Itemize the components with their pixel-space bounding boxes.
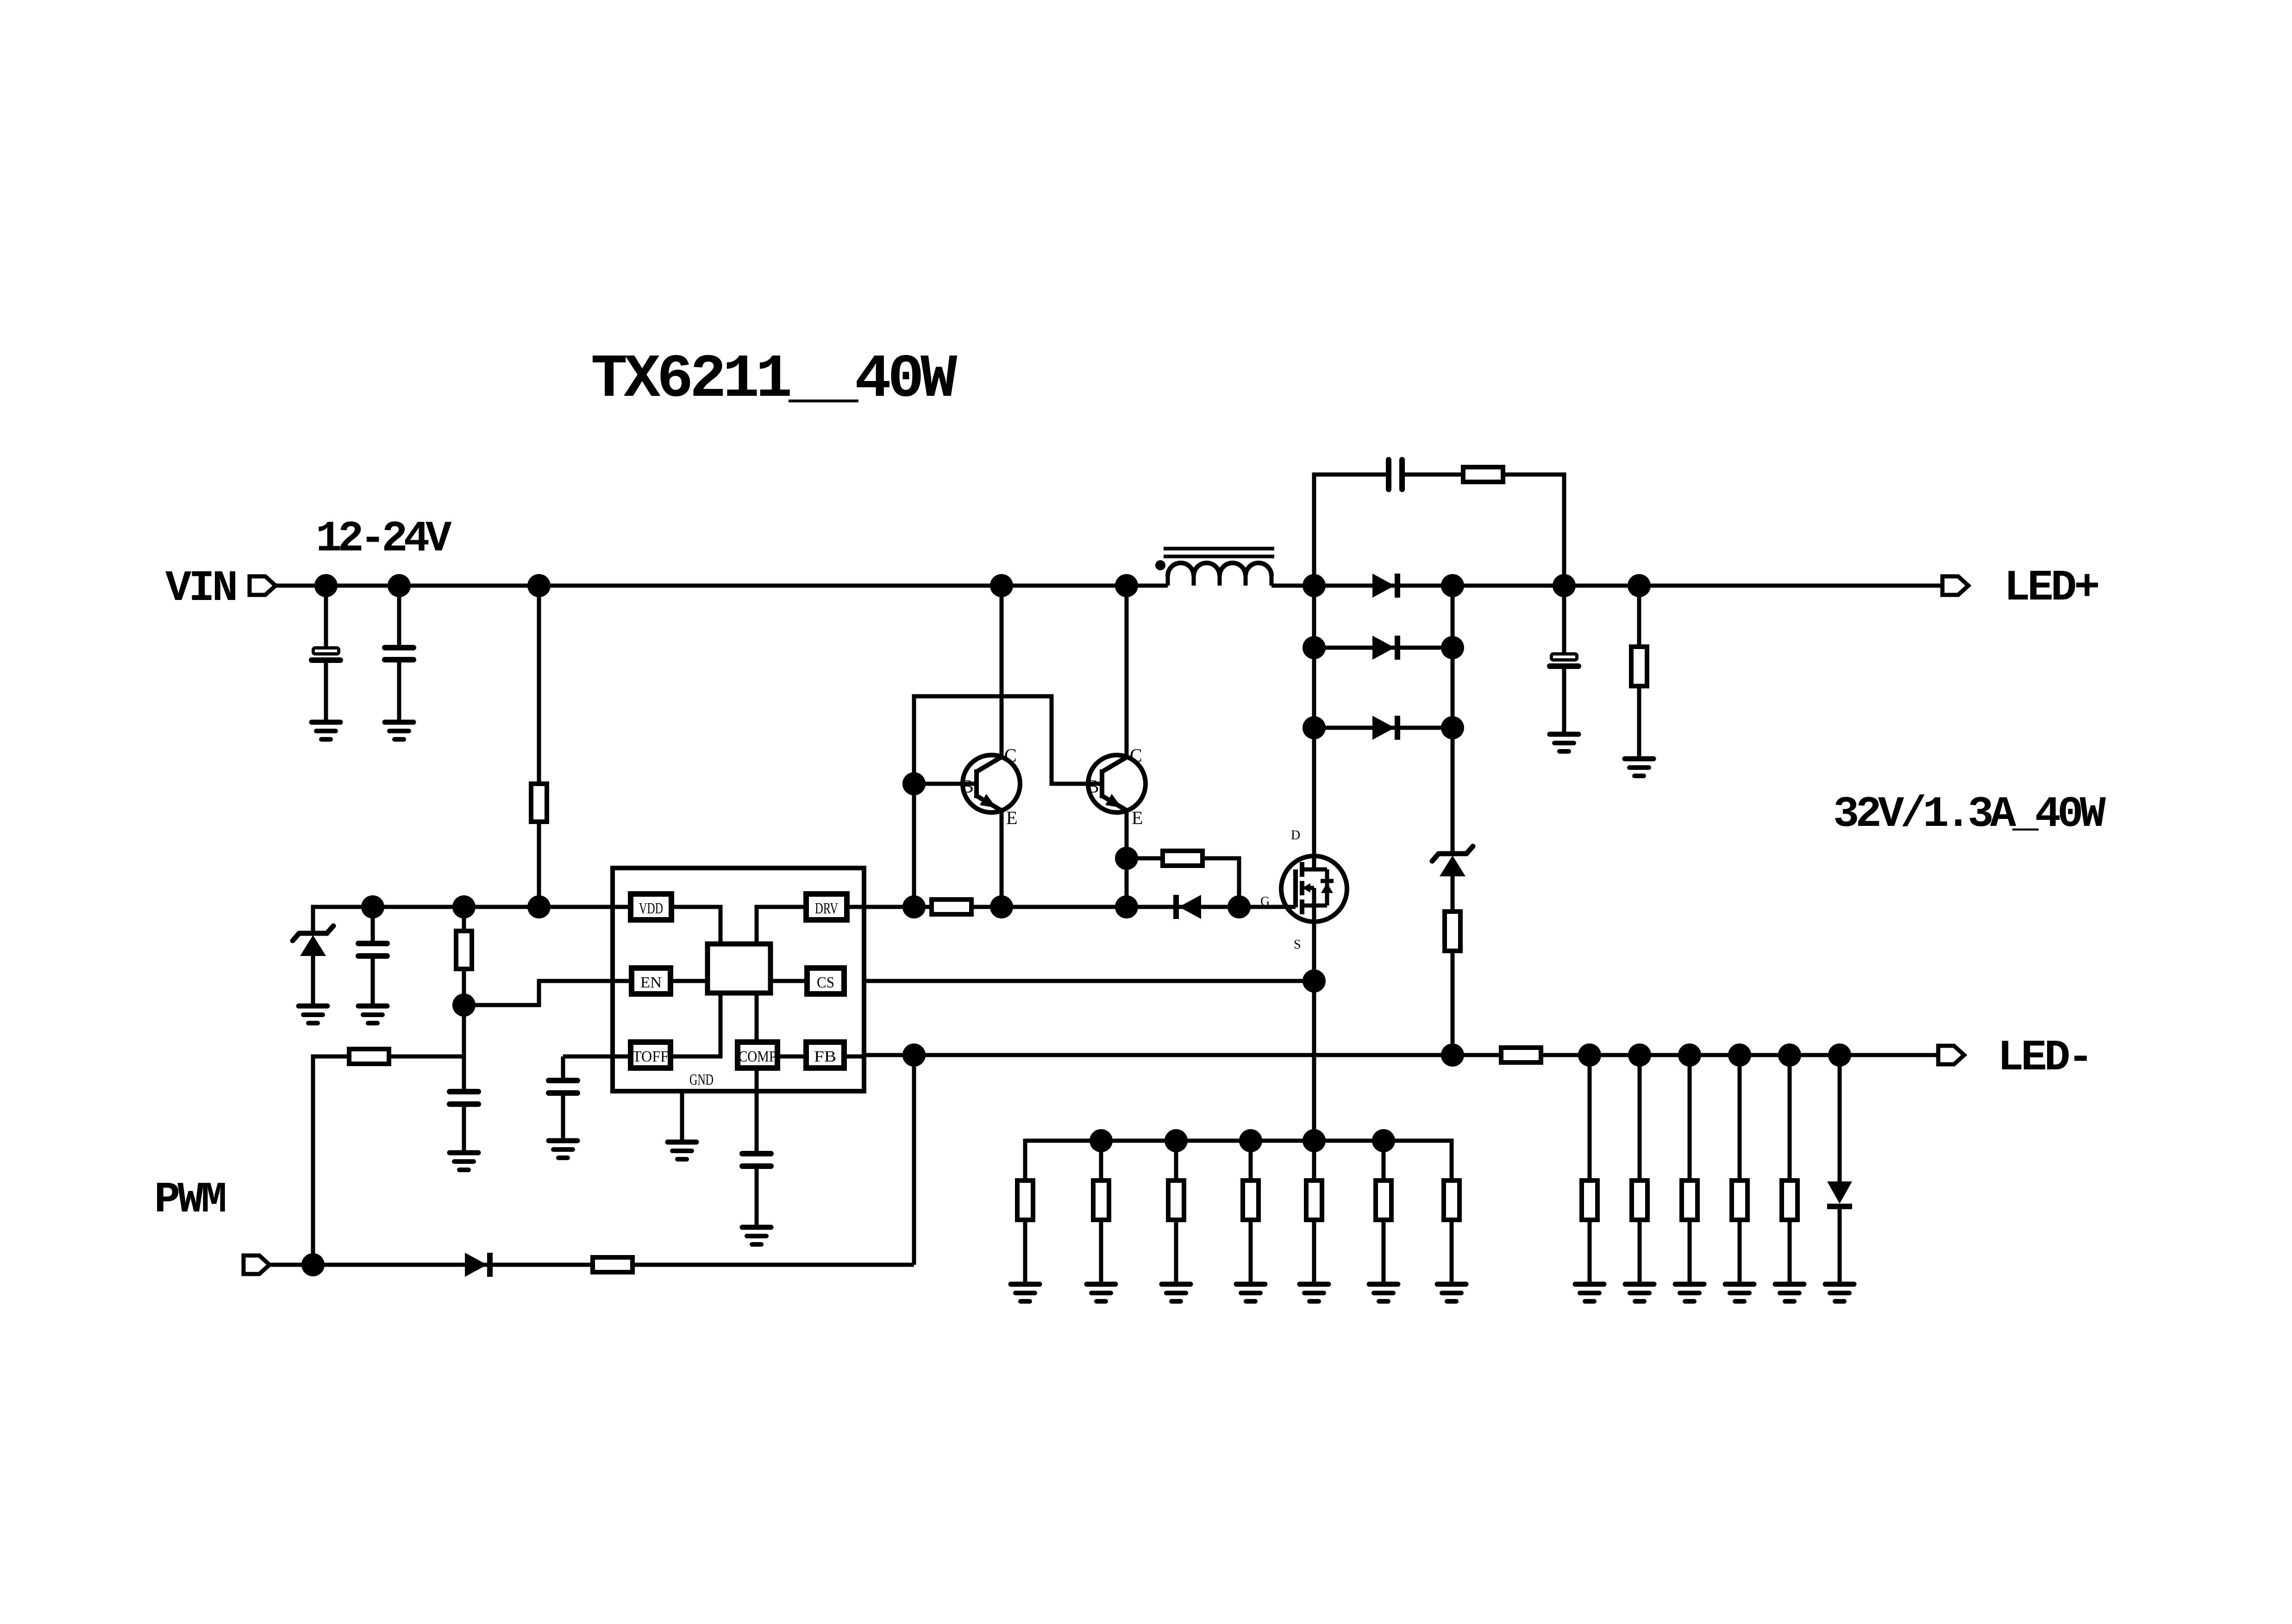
label Q2 B	[1087, 776, 1099, 797]
terminal VIN	[250, 576, 276, 595]
wire FB to PWM line	[912, 1055, 916, 1265]
resistor R20 (load bank)	[1682, 1181, 1697, 1220]
title TX6211__40W	[591, 345, 958, 414]
wire VDD rail	[313, 907, 631, 934]
wire bypass left	[1127, 856, 1163, 861]
wire C5 bottom lead	[371, 958, 375, 1006]
ground C7	[549, 1141, 577, 1158]
zener diode Z1 (VDD clamp)	[293, 926, 333, 956]
node D2 cathode	[1441, 636, 1464, 659]
ground bank R22	[1775, 1284, 1804, 1301]
wire Cout top lead	[1562, 586, 1566, 653]
label Q1 E	[1006, 807, 1017, 828]
wire Q2 emitter	[1125, 810, 1129, 907]
ground C2	[385, 722, 413, 739]
pin FB	[806, 1042, 844, 1068]
svg-text:C: C	[1130, 745, 1142, 766]
node VIN-C1	[314, 574, 338, 597]
node sense 5	[1372, 1129, 1395, 1152]
capacitor C8 (COMP)	[742, 1154, 771, 1166]
node sense 1	[1090, 1129, 1113, 1152]
svg-text:E: E	[1132, 807, 1143, 828]
wire Z1 to ground	[311, 956, 315, 1006]
label Q1 B	[961, 776, 974, 797]
svg-text:PWM: PWM	[154, 1176, 225, 1225]
wire U1 core to COMP	[755, 993, 759, 1042]
resistor R22 (load bank)	[1782, 1181, 1797, 1220]
node VIN-C2	[388, 574, 411, 597]
wire DRV to gate	[971, 905, 1296, 909]
node PWM	[301, 1253, 325, 1276]
svg-text:TX6211__40W: TX6211__40W	[591, 345, 958, 414]
wire C8 top lead	[755, 1068, 759, 1152]
svg-text:LED+: LED+	[2004, 564, 2098, 613]
node D3 anode	[1303, 716, 1326, 739]
diode D4 (gate pulldown)	[1176, 895, 1201, 919]
node LED- bank 2	[1628, 1043, 1651, 1067]
resistor R11 (sense)	[1017, 1181, 1033, 1220]
svg-text:VIN: VIN	[165, 564, 236, 613]
pin EN	[632, 968, 670, 994]
wire D6 top lead	[1838, 1055, 1842, 1181]
ground bank R20	[1675, 1284, 1704, 1301]
resistor R9 (LED- series)	[1501, 1048, 1541, 1062]
wire sense R13 bottom	[1174, 1220, 1178, 1284]
wire R1 top lead	[537, 586, 541, 784]
wire C7 bottom lead	[561, 1095, 565, 1141]
svg-text:FB: FB	[814, 1048, 836, 1065]
wire C7 top lead	[561, 1056, 565, 1079]
ground sense R11	[1011, 1284, 1040, 1301]
resistor R8 (gate speedup)	[1163, 851, 1202, 866]
diode D2 (rectifier row 2)	[1372, 636, 1397, 660]
label Q3 D	[1291, 828, 1300, 843]
transistor Q2	[1088, 755, 1146, 812]
label 12-24V	[316, 515, 452, 564]
node D1 cathode	[1441, 574, 1464, 597]
svg-text:GND: GND	[689, 1071, 714, 1088]
resistor R14 (sense)	[1243, 1181, 1259, 1220]
wire bank R21 bottom	[1738, 1220, 1742, 1284]
wire diode row 2	[1314, 646, 1453, 650]
wire inductor to node	[1271, 584, 1314, 588]
label LED-	[1998, 1034, 2091, 1083]
wire sense R13 top	[1174, 1141, 1178, 1181]
wire Cout bottom lead	[1562, 669, 1566, 734]
wire bank R19 top	[1638, 1055, 1642, 1181]
svg-text:G: G	[1260, 894, 1270, 909]
label Q3 G	[1260, 894, 1270, 909]
svg-text:TOFF: TOFF	[632, 1048, 669, 1065]
wire C2 bottom lead	[397, 662, 401, 722]
capacitor C6 (divider filter)	[450, 1092, 478, 1104]
node LED- bank 5	[1778, 1043, 1801, 1067]
wire sense R16 top	[1382, 1141, 1386, 1181]
wire PWM line	[269, 1263, 914, 1267]
node sense 2	[1165, 1129, 1188, 1152]
capacitor C2 (input cap)	[385, 648, 413, 660]
wire C2 top lead	[397, 586, 401, 646]
resistor R10 (PWM series)	[593, 1257, 632, 1272]
pin DRV	[806, 894, 847, 920]
wire Q1 base	[914, 782, 977, 786]
node VIN Q1C	[990, 574, 1013, 597]
wire C1 top lead	[324, 586, 328, 647]
label GND	[689, 1071, 714, 1088]
label VIN	[165, 564, 236, 613]
wire TOFF pin lead	[563, 1055, 631, 1059]
node LED- bank 1	[1578, 1043, 1601, 1067]
label Q2 E	[1132, 807, 1143, 828]
wire Q2 collector	[1125, 586, 1129, 758]
wire snubber left	[1314, 475, 1386, 586]
wire TOFF row left and down to PWM	[313, 1056, 349, 1265]
resistor R7 (DRV gate res)	[932, 899, 971, 914]
wire sense R12 top	[1099, 1141, 1103, 1181]
inductor L1	[1155, 549, 1274, 586]
terminal LED-	[1938, 1046, 1964, 1064]
wire U1 TOFF to core	[670, 993, 720, 1056]
node LED- bank 4	[1728, 1043, 1751, 1067]
IC U1 internal box	[708, 944, 770, 993]
resistor R2 (snubber)	[1463, 467, 1503, 482]
wire bank R22 top	[1788, 1055, 1792, 1181]
mosfet Q3	[1281, 856, 1347, 922]
wire bank R22 bottom	[1788, 1220, 1792, 1284]
node LED- zener	[1441, 1043, 1464, 1067]
resistor R1 (VIN to VDD)	[531, 784, 547, 822]
node Q1 base	[902, 772, 926, 795]
svg-text:12-24V: 12-24V	[316, 515, 452, 564]
capacitor C5 (VDD bypass)	[358, 943, 387, 956]
wire Z2 to R3	[1451, 876, 1455, 912]
label PWM	[154, 1176, 225, 1225]
label LED+	[2004, 564, 2098, 613]
svg-text:EN: EN	[640, 974, 662, 991]
ground sense R12	[1087, 1284, 1115, 1301]
wire diode row 3	[1314, 726, 1453, 730]
wire VIN rail left	[276, 584, 1168, 588]
svg-text:VDD: VDD	[639, 900, 663, 917]
wire CS line	[864, 979, 1314, 983]
ground C1	[312, 722, 340, 739]
pin COMP	[738, 1042, 777, 1068]
resistor R4 (output bleeder)	[1631, 647, 1647, 686]
node output res	[1628, 574, 1651, 597]
wire U1 FB out	[844, 1055, 864, 1059]
ground bank R19	[1625, 1284, 1654, 1301]
node sense 3	[1239, 1129, 1262, 1152]
wire R5 top lead	[462, 907, 466, 931]
wire sense R14 top	[1249, 1141, 1253, 1181]
resistor R18 (load bank)	[1582, 1181, 1597, 1220]
resistor R16 (sense)	[1376, 1181, 1391, 1220]
label Q2 C	[1130, 745, 1142, 766]
wire bank R18 bottom	[1588, 1220, 1592, 1284]
svg-text:S: S	[1294, 937, 1301, 952]
wire bank R20 top	[1688, 1055, 1692, 1181]
pin VDD	[631, 894, 671, 920]
wire sense R14 bottom	[1249, 1220, 1253, 1284]
transistor Q1	[963, 755, 1020, 812]
label Q3 S	[1294, 937, 1301, 952]
wire bank R20 bottom	[1688, 1220, 1692, 1284]
wire Q3 source	[1312, 888, 1316, 1141]
node sense 4	[1303, 1129, 1326, 1152]
node D3 cathode	[1441, 716, 1464, 739]
wire EN step	[464, 981, 632, 1005]
wire R1 bottom lead	[537, 822, 541, 907]
ground R4	[1625, 759, 1653, 776]
svg-text:E: E	[1006, 807, 1017, 828]
node VIN Q2C	[1115, 574, 1138, 597]
pin TOFF	[631, 1042, 670, 1068]
ground sense R16	[1369, 1284, 1398, 1301]
wire TOFF row right	[389, 1055, 464, 1059]
diode D1 (rectifier row 1)	[1372, 574, 1397, 598]
resistor R5 (EN divider top)	[456, 931, 472, 969]
terminal LED+	[1942, 576, 1968, 595]
wire U1 GND stub	[680, 1091, 684, 1142]
node D2 anode	[1303, 636, 1326, 659]
diode D6 (bank)	[1827, 1181, 1852, 1206]
svg-text:C: C	[1004, 745, 1017, 766]
capacitor C7 (TOFF cap)	[549, 1081, 577, 1093]
wire U1 DRV to core	[757, 907, 806, 944]
svg-text:COMP: COMP	[739, 1048, 777, 1065]
capacitor C1 (polarized input cap)	[312, 648, 340, 661]
svg-text:32V/1.3A_40W: 32V/1.3A_40W	[1833, 790, 2106, 839]
wire LED- rail right	[1541, 1053, 1938, 1057]
wire C1 bottom lead	[324, 662, 328, 722]
node gate	[1227, 895, 1251, 918]
node LED- diode	[1828, 1043, 1851, 1067]
wire sense R17 bottom	[1450, 1220, 1454, 1284]
ground sense R17	[1437, 1284, 1466, 1301]
label Q1 C	[1004, 745, 1017, 766]
node Q2E tap	[1115, 847, 1138, 870]
resistor R13 (sense)	[1168, 1181, 1184, 1220]
wire Rout top lead	[1637, 586, 1641, 647]
wire R3 to LED- rail	[1451, 951, 1455, 1055]
wire U1 COMP to FB	[777, 1055, 806, 1059]
label 32V/1.3A_40W	[1833, 790, 2106, 839]
wire bypass right	[1202, 858, 1239, 907]
node VDD-R1	[527, 895, 551, 918]
wire C8 bottom lead	[755, 1168, 759, 1227]
wire U1 EN to core	[670, 979, 708, 983]
wire snubber mid	[1404, 473, 1463, 477]
ground sense R14	[1236, 1284, 1265, 1301]
wire drain column	[1312, 586, 1316, 869]
ground bank R18	[1575, 1284, 1604, 1301]
node output cap	[1553, 574, 1576, 597]
svg-text:LED-: LED-	[1998, 1034, 2091, 1083]
node CS-S	[1303, 969, 1326, 993]
wire sense R15 top	[1312, 1141, 1316, 1181]
pin CS	[807, 968, 844, 994]
svg-text:B: B	[961, 776, 974, 797]
ground bank R21	[1725, 1284, 1754, 1301]
wire sense R15 bottom	[1312, 1220, 1316, 1284]
resistor R17 (sense)	[1444, 1181, 1459, 1220]
resistor R15 (sense)	[1306, 1181, 1322, 1220]
svg-text:D: D	[1291, 828, 1300, 843]
zener diode Z2	[1432, 846, 1473, 876]
resistor R19 (load bank)	[1632, 1181, 1647, 1220]
node Q1 emitter	[990, 895, 1013, 918]
capacitor C3 (snubber)	[1389, 460, 1402, 489]
wire C5 top lead	[371, 907, 375, 942]
wire U1 core to CS	[770, 979, 807, 983]
ground C5	[358, 1006, 387, 1023]
resistor R21 (load bank)	[1732, 1181, 1747, 1220]
resistor R3 (zener column)	[1445, 912, 1460, 951]
wire U1 VDD to core	[671, 907, 720, 944]
node VDD-R5	[452, 895, 476, 918]
ground D6	[1825, 1284, 1854, 1301]
node VIN-R1	[527, 574, 551, 597]
node L1 out	[1303, 574, 1326, 597]
IC U1 body	[613, 868, 864, 1091]
wire LED- rail left	[864, 1053, 1501, 1057]
ground sense R13	[1162, 1284, 1190, 1301]
ground C4	[1550, 734, 1578, 751]
terminal PWM	[244, 1255, 269, 1274]
wire bank R19 bottom	[1638, 1220, 1642, 1284]
diode D3 (rectifier row 3)	[1372, 716, 1397, 740]
capacitor C4 (output, polarized)	[1550, 654, 1578, 667]
wire C6 top lead	[462, 1056, 466, 1090]
wire sense R11 bottom	[1023, 1220, 1027, 1284]
wire C6 bottom lead	[462, 1106, 466, 1153]
resistor R6 (PWM to divider)	[349, 1049, 389, 1064]
wire Q1 collector	[1000, 586, 1004, 758]
node VDD-C5	[361, 895, 384, 918]
wire sense rail	[1025, 1141, 1452, 1181]
svg-text:B: B	[1087, 776, 1099, 797]
ground Z1	[299, 1006, 327, 1023]
wire R5 bottom to TOFF row	[462, 969, 466, 1056]
ground C6	[450, 1153, 478, 1170]
node LED- bank 3	[1678, 1043, 1701, 1067]
wire snubber right	[1503, 475, 1564, 586]
wire DRV out	[847, 905, 932, 909]
resistor R12 (sense)	[1093, 1181, 1109, 1220]
wire Q1 emitter	[1000, 810, 1004, 907]
node DRV	[902, 895, 926, 918]
wire D6 bottom lead	[1838, 1206, 1842, 1284]
wire zener column	[1451, 586, 1455, 852]
node Q2 emitter	[1115, 895, 1138, 918]
svg-text:DRV: DRV	[815, 900, 838, 917]
wire bank R18 top	[1588, 1055, 1592, 1181]
wire DRV to bases	[914, 696, 1102, 907]
wire Rout bottom lead	[1637, 686, 1641, 759]
ground sense R15	[1300, 1284, 1328, 1301]
svg-text:CS: CS	[817, 974, 834, 991]
node EN tap	[452, 993, 476, 1017]
wire sense R16 bottom	[1382, 1220, 1386, 1284]
diode D5 (PWM)	[465, 1253, 490, 1277]
ground C8	[742, 1227, 771, 1244]
wire LED+ rail	[1314, 584, 1942, 588]
wire bank R21 top	[1738, 1055, 1742, 1181]
node FB tap	[902, 1043, 926, 1067]
wire sense R12 bottom	[1099, 1220, 1103, 1284]
ground U1	[668, 1142, 696, 1159]
